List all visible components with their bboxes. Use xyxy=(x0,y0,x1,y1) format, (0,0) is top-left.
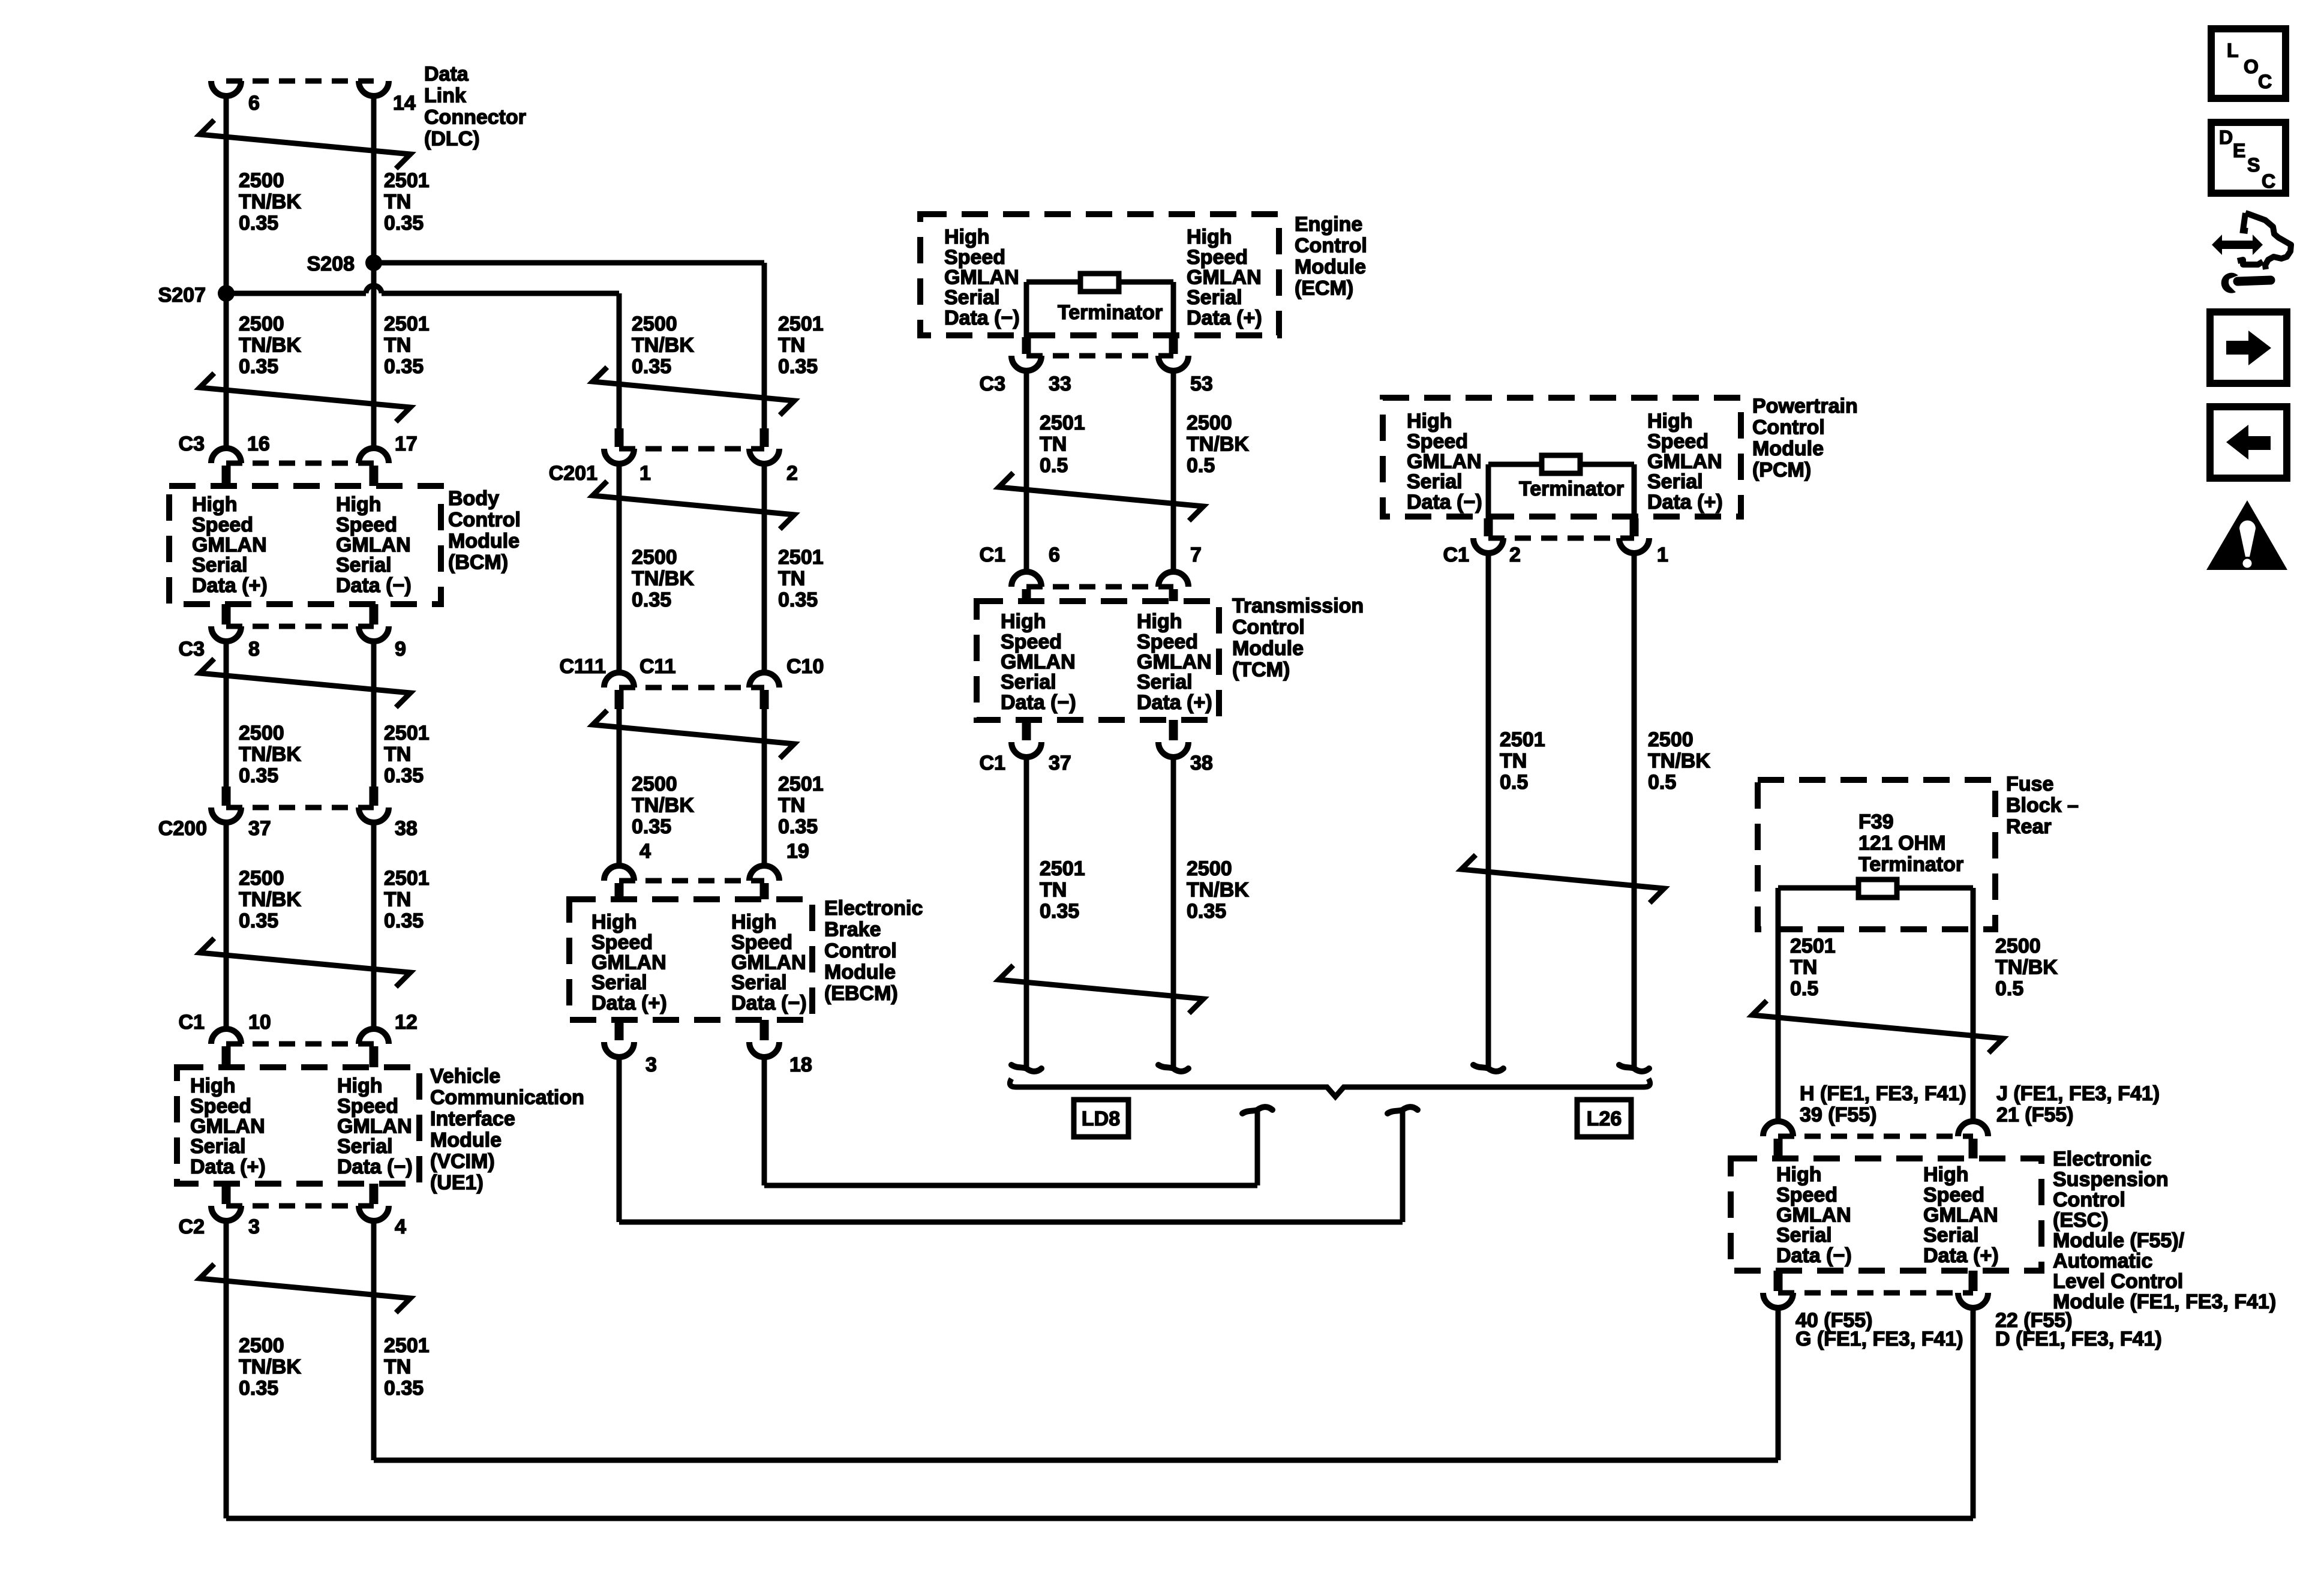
svg-text:6: 6 xyxy=(248,92,260,115)
wire 2501 TN DLC pin14 to S208 xyxy=(371,95,377,449)
svg-text:2501: 2501 xyxy=(384,313,430,335)
svg-text:Data (+): Data (+) xyxy=(1647,491,1723,514)
off-page break symbol col C row1 xyxy=(999,473,1203,521)
svg-text:Data (−): Data (−) xyxy=(336,574,412,597)
svg-text:TN: TN xyxy=(1040,433,1067,456)
svg-text:Serial: Serial xyxy=(944,286,1000,309)
svg-text:2501: 2501 xyxy=(1790,935,1836,957)
svg-text:2500: 2500 xyxy=(1995,935,2041,957)
svg-text:Speed: Speed xyxy=(731,931,792,954)
module: Vehicle Communication Interface Module (VCIM) (UE1) xyxy=(177,1067,419,1184)
svg-text:Speed: Speed xyxy=(1647,430,1709,453)
svg-text:3: 3 xyxy=(645,1053,657,1076)
svg-text:18: 18 xyxy=(789,1053,812,1076)
svg-text:Speed: Speed xyxy=(1001,631,1062,653)
svg-text:Serial: Serial xyxy=(337,1135,393,1158)
off-page break symbol col D xyxy=(1461,855,1664,903)
svg-text:TN: TN xyxy=(384,1356,411,1379)
svg-text:Serial: Serial xyxy=(1001,671,1056,694)
svg-text:(BCM): (BCM) xyxy=(448,551,508,574)
svg-text:Level Control: Level Control xyxy=(2053,1270,2183,1293)
svg-text:Data (−): Data (−) xyxy=(1776,1244,1852,1267)
svg-text:0.35: 0.35 xyxy=(384,909,424,932)
svg-text:GMLAN: GMLAN xyxy=(591,951,666,974)
svg-text:Rear: Rear xyxy=(2006,815,2052,838)
svg-text:C201: C201 xyxy=(549,462,597,485)
svg-text:Control: Control xyxy=(1232,616,1305,639)
svg-text:0.35: 0.35 xyxy=(384,1377,424,1400)
svg-text:C10: C10 xyxy=(786,655,824,678)
icon: DESC box xyxy=(2211,122,2286,193)
svg-text:(EBCM): (EBCM) xyxy=(824,982,898,1005)
svg-text:2500: 2500 xyxy=(239,313,284,335)
connector C1 pins 2/1 out of PCM xyxy=(1484,518,1493,536)
svg-text:TN: TN xyxy=(778,568,805,590)
svg-text:Link: Link xyxy=(424,85,466,107)
svg-text:TN: TN xyxy=(384,191,411,214)
svg-text:TN/BK: TN/BK xyxy=(1187,879,1249,902)
wrench xyxy=(2238,280,2271,281)
svg-text:(TCM): (TCM) xyxy=(1232,659,1290,682)
svg-text:121 OHM: 121 OHM xyxy=(1858,832,1946,855)
svg-text:Serial: Serial xyxy=(1187,286,1242,309)
svg-text:O: O xyxy=(2244,56,2259,77)
svg-text:D (FE1, FE3, F41): D (FE1, FE3, F41) xyxy=(1995,1328,2162,1350)
svg-text:High: High xyxy=(192,493,238,516)
svg-text:High: High xyxy=(1187,226,1232,248)
svg-text:(DLC): (DLC) xyxy=(424,128,480,151)
svg-text:(UE1): (UE1) xyxy=(430,1172,484,1194)
svg-text:C3: C3 xyxy=(980,373,1005,395)
svg-text:19: 19 xyxy=(786,840,809,863)
icon: diagnostic tool (arrow, vehicle outline, wrench) xyxy=(2212,235,2263,255)
svg-text:TN/BK: TN/BK xyxy=(239,1356,301,1379)
svg-text:Speed: Speed xyxy=(1137,631,1198,653)
svg-text:2501: 2501 xyxy=(384,169,430,192)
svg-text:TN/BK: TN/BK xyxy=(632,334,694,357)
svg-text:37: 37 xyxy=(1049,752,1071,775)
svg-text:2500: 2500 xyxy=(239,722,284,745)
svg-text:C: C xyxy=(2262,170,2275,192)
svg-text:53: 53 xyxy=(1190,373,1213,395)
harness brace xyxy=(1010,1079,1650,1097)
svg-text:Control: Control xyxy=(824,939,897,962)
svg-text:16: 16 xyxy=(247,433,270,455)
svg-text:Module (F55)/: Module (F55)/ xyxy=(2053,1229,2185,1252)
svg-text:Body: Body xyxy=(448,487,499,510)
svg-text:J (FE1, FE3, F41): J (FE1, FE3, F41) xyxy=(1996,1082,2160,1105)
svg-text:TN: TN xyxy=(1790,956,1817,979)
svg-text:Terminator: Terminator xyxy=(1519,478,1624,500)
module: Fuse Block - Rear xyxy=(1758,780,1995,929)
svg-text:TN: TN xyxy=(384,334,411,357)
svg-text:1: 1 xyxy=(639,462,651,485)
svg-text:TN/BK: TN/BK xyxy=(239,888,301,911)
svg-text:TN: TN xyxy=(1040,879,1067,902)
svg-text:Data (+): Data (+) xyxy=(1137,691,1212,714)
svg-text:GMLAN: GMLAN xyxy=(1923,1204,1998,1227)
svg-text:37: 37 xyxy=(248,817,271,840)
svg-text:Suspension: Suspension xyxy=(2053,1168,2169,1191)
svg-text:Module: Module xyxy=(1752,437,1824,460)
svg-text:17: 17 xyxy=(395,433,418,455)
svg-text:2500: 2500 xyxy=(632,313,677,335)
svg-text:Interface: Interface xyxy=(430,1107,515,1130)
svg-text:Data (+): Data (+) xyxy=(591,992,667,1014)
svg-text:Data (−): Data (−) xyxy=(731,992,807,1014)
svg-text:L26: L26 xyxy=(1587,1107,1622,1130)
svg-text:E: E xyxy=(2233,140,2245,161)
wire TCM 38 to LD8 harness xyxy=(1171,757,1176,1067)
svg-text:0.5: 0.5 xyxy=(1790,977,1818,1000)
svg-text:High: High xyxy=(731,911,777,933)
svg-text:High: High xyxy=(190,1074,236,1097)
svg-text:Serial: Serial xyxy=(1923,1224,1979,1247)
svg-text:GMLAN: GMLAN xyxy=(1187,266,1262,289)
svg-text:GMLAN: GMLAN xyxy=(337,1115,412,1138)
svg-text:2501: 2501 xyxy=(1500,728,1545,751)
svg-text:Powertrain: Powertrain xyxy=(1752,395,1858,418)
svg-text:C11: C11 xyxy=(639,655,676,678)
svg-text:C1: C1 xyxy=(980,752,1005,775)
svg-text:2500: 2500 xyxy=(1187,857,1232,880)
svg-text:2500: 2500 xyxy=(239,867,284,890)
inline connector C201 pins 1/2 xyxy=(615,428,624,447)
wire VCIM pin4 2501 to ESC pin G xyxy=(371,1220,377,1460)
svg-text:High: High xyxy=(1647,410,1693,433)
svg-text:Module: Module xyxy=(430,1129,502,1152)
svg-text:Fuse: Fuse xyxy=(2006,773,2053,795)
svg-text:2500: 2500 xyxy=(239,169,284,192)
off-page break symbol col A row2 xyxy=(200,373,410,422)
wire C11 to EBCM xyxy=(617,709,622,866)
harness stub hook below brace left xyxy=(1242,1107,1272,1113)
svg-text:38: 38 xyxy=(1190,752,1213,775)
splice S207 xyxy=(218,285,235,302)
svg-text:S207: S207 xyxy=(158,284,206,307)
svg-text:0.5: 0.5 xyxy=(1995,977,2023,1000)
PCM internal terminator resistor xyxy=(1488,462,1634,467)
svg-text:Speed: Speed xyxy=(591,931,653,954)
svg-text:Connector: Connector xyxy=(424,106,526,129)
svg-text:0.5: 0.5 xyxy=(1187,454,1215,477)
svg-text:Serial: Serial xyxy=(731,971,787,994)
svg-text:Serial: Serial xyxy=(190,1135,246,1158)
svg-text:0.35: 0.35 xyxy=(384,212,424,235)
svg-text:High: High xyxy=(1407,410,1452,433)
svg-text:H (FE1, FE3, F41): H (FE1, FE3, F41) xyxy=(1800,1082,1966,1105)
svg-text:Speed: Speed xyxy=(192,514,253,536)
svg-text:39 (F55): 39 (F55) xyxy=(1800,1104,1877,1127)
svg-text:GMLAN: GMLAN xyxy=(190,1115,265,1138)
svg-text:C3: C3 xyxy=(179,433,205,455)
wire BCM9 to C200 xyxy=(224,641,229,788)
svg-text:Vehicle: Vehicle xyxy=(430,1065,500,1088)
svg-text:GMLAN: GMLAN xyxy=(1001,651,1076,674)
svg-text:C111: C111 xyxy=(559,655,606,678)
svg-text:D: D xyxy=(2219,127,2233,148)
ECM internal terminator resistor xyxy=(1026,280,1173,285)
svg-text:0.35: 0.35 xyxy=(239,212,278,235)
svg-text:Data (−): Data (−) xyxy=(337,1155,413,1178)
svg-text:Speed: Speed xyxy=(1407,430,1468,453)
wire PCM 1 to L26 harness xyxy=(1632,553,1637,1067)
svg-text:2501: 2501 xyxy=(778,546,824,569)
svg-text:C1: C1 xyxy=(1443,544,1469,566)
svg-text:High: High xyxy=(1776,1163,1822,1186)
svg-text:G (FE1, FE3, F41): G (FE1, FE3, F41) xyxy=(1795,1328,1963,1350)
svg-text:Data (−): Data (−) xyxy=(1001,691,1076,714)
svg-text:Data (+): Data (+) xyxy=(1923,1244,1999,1267)
svg-text:0.5: 0.5 xyxy=(1648,771,1676,794)
svg-text:Communication: Communication xyxy=(430,1086,584,1109)
svg-text:High: High xyxy=(336,493,382,516)
wire PCM 2 to L26 harness xyxy=(1486,553,1491,1067)
wire S207 to C201 pin1 (hop over 2501) xyxy=(226,291,366,296)
svg-text:S208: S208 xyxy=(307,253,355,275)
connector: Data Link Connector (DLC) xyxy=(226,79,374,84)
wire EBCM pin18 to harness splice (upper) xyxy=(762,1056,767,1185)
svg-text:F39: F39 xyxy=(1858,810,1894,833)
svg-text:Module: Module xyxy=(1232,637,1304,660)
svg-text:2: 2 xyxy=(786,462,798,485)
svg-text:2501: 2501 xyxy=(778,773,824,795)
svg-text:C2: C2 xyxy=(179,1215,205,1238)
svg-text:LD8: LD8 xyxy=(1082,1107,1120,1130)
wire EBCM pin3 to harness splice (lower) xyxy=(617,1056,622,1222)
svg-text:High: High xyxy=(1923,1163,1969,1186)
svg-text:Automatic: Automatic xyxy=(2053,1250,2152,1272)
svg-text:14: 14 xyxy=(393,92,416,115)
connector C2 pins 3/4 out of VCIM xyxy=(222,1184,231,1204)
svg-text:Control: Control xyxy=(1752,416,1825,439)
svg-text:Module: Module xyxy=(1295,256,1366,278)
svg-text:TN/BK: TN/BK xyxy=(632,794,694,817)
module: Transmission Control Module (TCM) xyxy=(977,601,1219,720)
svg-text:2501: 2501 xyxy=(384,1334,430,1357)
svg-text:TN/BK: TN/BK xyxy=(239,743,301,766)
svg-text:0.35: 0.35 xyxy=(778,815,818,838)
svg-text:Data (+): Data (+) xyxy=(192,574,268,597)
svg-text:0.35: 0.35 xyxy=(384,355,424,378)
icon: arrow left box xyxy=(2210,407,2287,478)
svg-text:0.35: 0.35 xyxy=(778,589,818,611)
svg-text:GMLAN: GMLAN xyxy=(731,951,806,974)
svg-text:TN: TN xyxy=(1500,750,1527,773)
svg-text:Serial: Serial xyxy=(192,554,248,577)
svg-text:Module (FE1, FE3, F41): Module (FE1, FE3, F41) xyxy=(2053,1290,2276,1313)
svg-text:Speed: Speed xyxy=(336,514,397,536)
svg-text:GMLAN: GMLAN xyxy=(1137,651,1212,674)
svg-text:Terminator: Terminator xyxy=(1058,301,1163,324)
svg-text:9: 9 xyxy=(395,638,406,661)
svg-text:L: L xyxy=(2227,40,2239,61)
svg-text:1: 1 xyxy=(1657,544,1668,566)
svg-text:High: High xyxy=(1137,610,1182,633)
module: Body Control Module (BCM) xyxy=(169,486,441,604)
svg-text:TN/BK: TN/BK xyxy=(1648,750,1710,773)
svg-text:7: 7 xyxy=(1190,544,1202,566)
svg-text:2500: 2500 xyxy=(1187,412,1232,434)
svg-text:Data (−): Data (−) xyxy=(1407,491,1482,514)
svg-text:Brake: Brake xyxy=(824,918,881,941)
svg-text:TN/BK: TN/BK xyxy=(239,334,301,357)
svg-text:2501: 2501 xyxy=(384,867,430,890)
svg-text:(VCIM): (VCIM) xyxy=(430,1150,495,1173)
svg-text:Block –: Block – xyxy=(2006,794,2079,817)
svg-text:33: 33 xyxy=(1049,373,1071,395)
engine code box L26 xyxy=(1577,1100,1631,1137)
harness stub hook below brace right xyxy=(1388,1107,1418,1113)
svg-text:0.35: 0.35 xyxy=(632,815,671,838)
svg-text:Serial: Serial xyxy=(1137,671,1193,694)
svg-text:Engine: Engine xyxy=(1295,213,1362,236)
wire C200 to VCIM xyxy=(224,822,229,1029)
svg-text:Module: Module xyxy=(448,530,520,553)
svg-text:Electronic: Electronic xyxy=(824,897,923,920)
svg-text:High: High xyxy=(1001,610,1046,633)
svg-text:C1: C1 xyxy=(980,544,1005,566)
svg-text:Control: Control xyxy=(448,509,521,532)
engine code box LD8 xyxy=(1074,1100,1128,1137)
svg-text:Speed: Speed xyxy=(944,246,1005,269)
svg-text:0.35: 0.35 xyxy=(239,1377,278,1400)
harness stub hook xyxy=(1619,1065,1649,1071)
svg-text:8: 8 xyxy=(248,638,260,661)
svg-text:10: 10 xyxy=(248,1011,271,1034)
svg-text:0.35: 0.35 xyxy=(239,764,278,787)
svg-text:TN: TN xyxy=(778,334,805,357)
svg-text:High: High xyxy=(591,911,637,933)
svg-text:(PCM): (PCM) xyxy=(1752,459,1811,482)
svg-text:C1: C1 xyxy=(179,1011,205,1034)
F39 terminator resistor xyxy=(1778,885,1973,891)
inline connector C200 pins 37/38 xyxy=(222,786,231,806)
connector pins 40/G 22/D out of ESC xyxy=(1774,1271,1783,1291)
svg-text:GMLAN: GMLAN xyxy=(1776,1204,1851,1227)
svg-text:Serial: Serial xyxy=(336,554,392,577)
svg-text:TN: TN xyxy=(778,794,805,817)
off-page break symbol col C row2 xyxy=(999,965,1203,1013)
svg-text:TN: TN xyxy=(384,888,411,911)
svg-text:Electronic: Electronic xyxy=(2053,1148,2151,1170)
svg-text:Control: Control xyxy=(1295,235,1367,257)
svg-text:Transmission: Transmission xyxy=(1232,595,1364,617)
svg-text:38: 38 xyxy=(395,817,418,840)
svg-text:Speed: Speed xyxy=(1923,1184,1984,1206)
svg-text:0.35: 0.35 xyxy=(239,909,278,932)
svg-text:0.35: 0.35 xyxy=(632,589,671,611)
svg-text:0.35: 0.35 xyxy=(1040,900,1079,923)
svg-text:Control: Control xyxy=(2053,1188,2125,1211)
svg-text:12: 12 xyxy=(395,1011,418,1034)
svg-text:TN: TN xyxy=(384,743,411,766)
svg-text:Data (−): Data (−) xyxy=(944,307,1020,329)
off-page break symbol col E xyxy=(1752,1001,2003,1053)
svg-text:3: 3 xyxy=(248,1215,260,1238)
svg-text:0.35: 0.35 xyxy=(384,764,424,787)
module: Powertrain Control Module (PCM) xyxy=(1383,398,1741,517)
svg-text:GMLAN: GMLAN xyxy=(1407,451,1482,473)
svg-text:Data (+): Data (+) xyxy=(190,1155,266,1178)
icon: LOC box xyxy=(2211,29,2286,98)
svg-text:C200: C200 xyxy=(158,817,207,840)
svg-text:Module: Module xyxy=(824,961,896,984)
wire VCIM pin3 2500 to ESC pin D (bottom route) xyxy=(224,1220,229,1518)
wire TCM 37 to LD8 harness xyxy=(1024,757,1029,1067)
svg-text:TN/BK: TN/BK xyxy=(632,568,694,590)
wire S208 to C201 pin2 xyxy=(374,260,764,266)
svg-text:(ECM): (ECM) xyxy=(1295,277,1353,300)
svg-text:0.5: 0.5 xyxy=(1500,771,1528,794)
svg-text:21 (F55): 21 (F55) xyxy=(1996,1104,2074,1127)
harness stub hook xyxy=(1473,1065,1503,1071)
svg-text:Serial: Serial xyxy=(1776,1224,1832,1247)
svg-text:Serial: Serial xyxy=(591,971,647,994)
svg-text:0.35: 0.35 xyxy=(632,355,671,378)
connector C3 pins 8/9 out of BCM xyxy=(222,604,231,625)
wire 2500 TN/BK DLC pin6 to S207 xyxy=(224,95,229,449)
svg-text:GMLAN: GMLAN xyxy=(1647,451,1722,473)
svg-text:GMLAN: GMLAN xyxy=(944,266,1019,289)
svg-text:0.35: 0.35 xyxy=(239,355,278,378)
connector C3 pins 33/53 out of ECM xyxy=(1022,337,1031,354)
svg-text:0.35: 0.35 xyxy=(778,355,818,378)
svg-text:Data (+): Data (+) xyxy=(1187,307,1262,329)
svg-text:Speed: Speed xyxy=(1187,246,1248,269)
svg-text:High: High xyxy=(944,226,990,248)
svg-text:TN/BK: TN/BK xyxy=(1995,956,2058,979)
svg-text:GMLAN: GMLAN xyxy=(192,534,267,557)
svg-text:Serial: Serial xyxy=(1647,470,1703,493)
svg-text:(ESC): (ESC) xyxy=(2053,1209,2109,1232)
connector C1 pins 37/38 out of TCM xyxy=(1022,720,1031,740)
svg-text:C3: C3 xyxy=(179,638,205,661)
svg-text:0.5: 0.5 xyxy=(1040,454,1068,477)
svg-text:0.35: 0.35 xyxy=(1187,900,1226,923)
svg-text:2500: 2500 xyxy=(632,773,677,795)
off-page break symbol col A row5 xyxy=(200,1264,410,1313)
svg-text:2501: 2501 xyxy=(1040,857,1085,880)
svg-text:2501: 2501 xyxy=(778,313,824,335)
svg-text:C: C xyxy=(2258,71,2272,92)
svg-text:2501: 2501 xyxy=(1040,412,1085,434)
svg-text:Speed: Speed xyxy=(337,1095,398,1118)
svg-text:4: 4 xyxy=(639,840,651,863)
svg-text:2500: 2500 xyxy=(632,546,677,569)
svg-text:6: 6 xyxy=(1049,544,1060,566)
svg-text:2500: 2500 xyxy=(239,1334,284,1357)
icon: warning triangle xyxy=(2206,500,2287,570)
svg-text:TN/BK: TN/BK xyxy=(1187,433,1249,456)
off-page break symbol col A row1 xyxy=(200,120,410,169)
off-page break symbol col A row4 xyxy=(200,938,410,987)
svg-text:2501: 2501 xyxy=(384,722,430,745)
module: Engine Control Module (ECM) xyxy=(920,214,1279,335)
svg-text:2500: 2500 xyxy=(1648,728,1694,751)
svg-text:S: S xyxy=(2247,154,2260,176)
splice S208 xyxy=(365,254,382,271)
svg-text:Speed: Speed xyxy=(1776,1184,1837,1206)
icon: arrow right box xyxy=(2210,312,2287,383)
svg-text:2: 2 xyxy=(1509,544,1521,566)
svg-text:Terminator: Terminator xyxy=(1858,853,1963,876)
svg-text:TN/BK: TN/BK xyxy=(239,191,301,214)
connector pins 3/18 out of EBCM xyxy=(615,1020,624,1040)
wire ECM to TCM xyxy=(1024,370,1029,572)
off-page break symbol col B row2 xyxy=(593,481,794,529)
wire C201 to C11 xyxy=(617,463,622,673)
